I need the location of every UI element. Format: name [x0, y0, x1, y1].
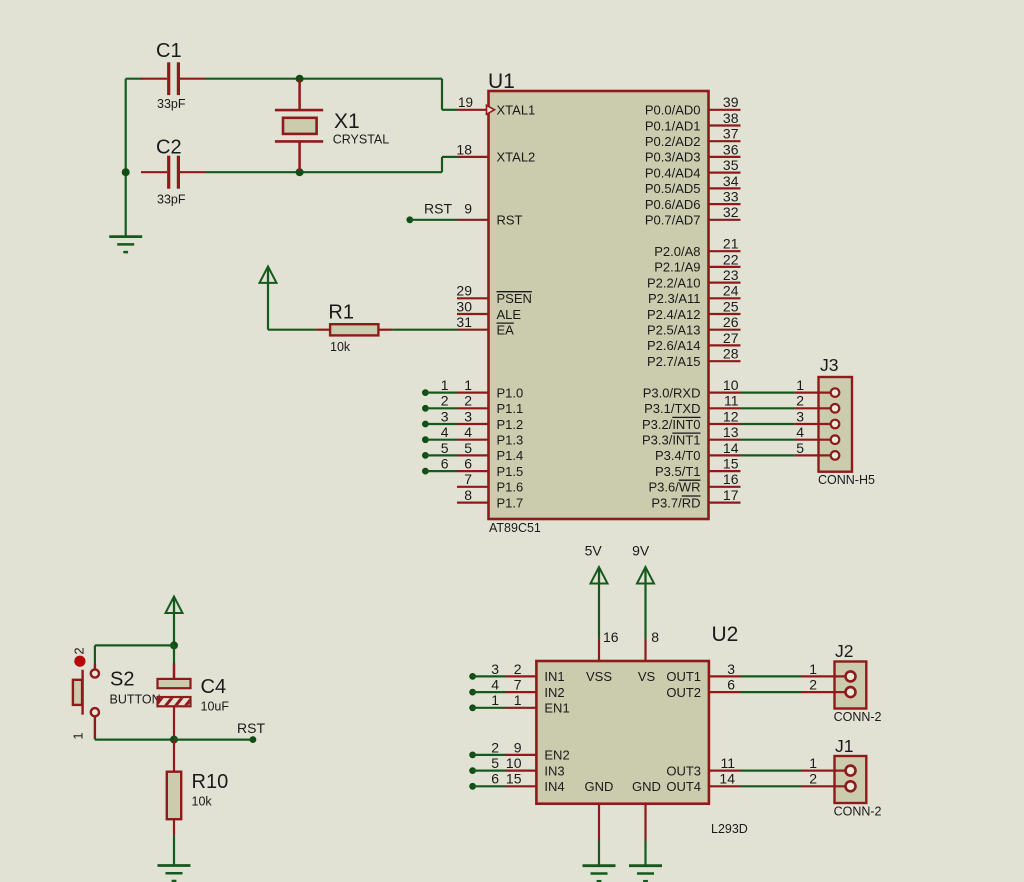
crystal X1: [298, 80, 301, 110]
svg-text:4: 4: [441, 424, 449, 440]
svg-text:P3.3/INT1: P3.3/INT1: [642, 433, 701, 448]
U1 pin 32: [709, 219, 741, 221]
wire vertical rail x=126: [125, 79, 127, 237]
U1 pin 16: [709, 486, 741, 488]
svg-text:6: 6: [464, 456, 472, 472]
node junction C2 rail: [122, 168, 130, 176]
node RST terminal U1: [406, 216, 413, 223]
wire terminal P1.3: [422, 436, 429, 443]
svg-text:X1: X1: [334, 110, 360, 133]
chip U2 L293D body: [536, 661, 709, 804]
svg-text:24: 24: [723, 283, 739, 299]
svg-text:5: 5: [464, 440, 472, 456]
svg-text:P0.0/AD0: P0.0/AD0: [645, 103, 701, 118]
svg-text:P3.2/INT0: P3.2/INT0: [642, 417, 701, 432]
switch S2 BUTTON: [94, 664, 96, 669]
svg-text:P2.6/A14: P2.6/A14: [647, 338, 701, 353]
svg-text:R10: R10: [192, 771, 229, 793]
svg-text:2: 2: [72, 647, 87, 654]
svg-text:P3.1/TXD: P3.1/TXD: [644, 401, 700, 416]
svg-text:CRYSTAL: CRYSTAL: [333, 133, 390, 147]
U2 GND pin left: [598, 804, 600, 841]
svg-text:P0.2/AD2: P0.2/AD2: [645, 134, 701, 149]
svg-text:19: 19: [458, 95, 473, 110]
svg-text:27: 27: [723, 330, 739, 346]
J3 pin 5: [741, 454, 795, 456]
svg-text:4: 4: [796, 424, 804, 440]
svg-text:L293D: L293D: [711, 822, 748, 836]
U1 pin 11: [709, 407, 741, 409]
svg-text:9: 9: [464, 201, 472, 217]
svg-text:XTAL2: XTAL2: [497, 150, 536, 165]
U1 pin 7 P1.6: [457, 486, 489, 488]
svg-text:2: 2: [514, 661, 522, 677]
J1 pin 1: [741, 769, 802, 771]
power arrow 9V: [644, 568, 646, 584]
svg-text:36: 36: [723, 141, 739, 157]
U2 pin 14 OUT4: [709, 785, 741, 787]
U1 pin 1 P1.0: [457, 392, 489, 394]
wire terminal P1.2: [422, 421, 429, 428]
svg-text:P1.3: P1.3: [497, 433, 524, 448]
svg-text:38: 38: [723, 110, 739, 126]
svg-text:OUT4: OUT4: [666, 779, 701, 794]
ground osc: [109, 235, 142, 238]
svg-text:10: 10: [723, 377, 739, 393]
svg-text:26: 26: [723, 314, 739, 330]
svg-text:C2: C2: [156, 137, 182, 159]
U1 pin 26: [709, 329, 741, 331]
wire C2 to XTAL2: [206, 171, 443, 173]
U1 pin 25: [709, 313, 741, 315]
svg-text:9V: 9V: [632, 543, 650, 559]
svg-text:2: 2: [809, 771, 817, 787]
U2 pin 16 VSS supply: [598, 639, 600, 661]
svg-text:P0.7/AD7: P0.7/AD7: [645, 213, 701, 228]
U2 pin 3 OUT1: [709, 675, 741, 677]
wire C1 to XTAL1: [206, 78, 443, 80]
chip U1 AT89C51 body: [489, 91, 709, 519]
svg-text:33pF: 33pF: [157, 193, 186, 207]
svg-text:P1.1: P1.1: [497, 401, 524, 416]
wire terminal P1.4: [422, 452, 429, 459]
svg-text:VSS: VSS: [586, 669, 612, 684]
wire terminal P1.1: [422, 405, 429, 412]
J3 pin 1: [741, 392, 795, 394]
capacitor C4: [173, 645, 175, 663]
svg-text:P2.7/A15: P2.7/A15: [647, 354, 701, 369]
svg-text:4: 4: [464, 424, 472, 440]
svg-text:EA: EA: [497, 323, 515, 338]
U1 pin 29 PSEN: [457, 297, 489, 299]
J3 pin 4: [741, 439, 795, 441]
U2 pin 6 OUT2: [709, 691, 741, 693]
svg-text:BUTTON: BUTTON: [110, 693, 161, 707]
svg-text:22: 22: [723, 251, 739, 267]
svg-text:2: 2: [491, 739, 499, 755]
svg-text:C1: C1: [156, 40, 182, 62]
node junction X1 top: [296, 75, 304, 83]
svg-text:35: 35: [723, 157, 739, 173]
svg-text:CONN-H5: CONN-H5: [818, 473, 875, 487]
capacitor C1: [141, 78, 167, 80]
U1 pin 38: [709, 124, 741, 126]
svg-text:P2.1/A9: P2.1/A9: [654, 260, 700, 275]
U1 pin 19 XTAL1: [457, 109, 489, 111]
node junction X1 bottom: [296, 168, 304, 176]
U1 pin 22: [709, 266, 741, 268]
svg-text:IN3: IN3: [544, 763, 564, 778]
U1 pin 34: [709, 187, 741, 189]
capacitor C2: [141, 171, 167, 173]
svg-text:P2.4/A12: P2.4/A12: [647, 307, 701, 322]
svg-text:P0.5/AD5: P0.5/AD5: [645, 181, 701, 196]
node junction RST net: [170, 736, 178, 744]
svg-text:32: 32: [723, 204, 739, 220]
svg-text:IN4: IN4: [544, 779, 564, 794]
svg-text:1: 1: [464, 377, 472, 393]
power arrow R1: [267, 267, 269, 283]
svg-text:U1: U1: [488, 70, 515, 93]
svg-text:CONN-2: CONN-2: [834, 805, 882, 819]
U2 pin 11 OUT3: [709, 769, 741, 771]
svg-text:J1: J1: [835, 736, 853, 756]
svg-text:15: 15: [723, 456, 739, 472]
power arrow reset: [173, 598, 175, 614]
U1 pin 28: [709, 360, 741, 362]
svg-text:RST: RST: [424, 201, 452, 217]
svg-text:P0.6/AD6: P0.6/AD6: [645, 197, 701, 212]
svg-text:PSEN: PSEN: [497, 291, 532, 306]
svg-text:RST: RST: [237, 720, 265, 736]
svg-text:2: 2: [441, 393, 449, 409]
svg-text:37: 37: [723, 126, 739, 142]
svg-text:P2.2/A10: P2.2/A10: [647, 275, 701, 290]
svg-text:P3.0/RXD: P3.0/RXD: [643, 385, 701, 400]
svg-text:3: 3: [727, 661, 735, 677]
svg-text:U2: U2: [712, 623, 739, 646]
svg-text:3: 3: [441, 408, 449, 424]
node RST terminal: [250, 736, 257, 743]
svg-text:P1.7: P1.7: [497, 495, 524, 510]
U1 pin 30 ALE: [457, 313, 489, 315]
svg-text:P0.3/AD3: P0.3/AD3: [645, 150, 701, 165]
svg-text:P1.4: P1.4: [497, 448, 524, 463]
svg-text:23: 23: [723, 267, 739, 283]
power arrow 5V: [598, 568, 600, 584]
svg-text:10: 10: [506, 755, 522, 771]
svg-text:11: 11: [720, 755, 735, 771]
U1 pin 12: [709, 423, 741, 425]
svg-text:P3.5/T1: P3.5/T1: [655, 464, 701, 479]
svg-text:2: 2: [809, 677, 817, 693]
U1 pin 37: [709, 140, 741, 142]
ground reset: [158, 864, 191, 867]
svg-text:2: 2: [464, 393, 472, 409]
U2 pin 2 IN1: [469, 673, 476, 680]
svg-text:5: 5: [796, 440, 804, 456]
svg-text:14: 14: [723, 440, 739, 456]
svg-text:5: 5: [491, 755, 499, 771]
svg-text:4: 4: [491, 677, 499, 693]
U1 pin 9 RST: [457, 219, 489, 221]
svg-text:1: 1: [71, 732, 86, 739]
U1 pin 39: [709, 109, 741, 111]
svg-text:RST: RST: [497, 213, 523, 228]
svg-text:25: 25: [723, 298, 739, 314]
U1 pin 27: [709, 344, 741, 346]
U2 pin 8 VS supply: [644, 639, 646, 661]
U1 pin 13: [709, 439, 741, 441]
U1 pin 2 P1.1: [457, 407, 489, 409]
svg-text:1: 1: [491, 692, 499, 708]
svg-text:16: 16: [603, 629, 619, 645]
U2 pin 10 IN3: [469, 767, 476, 774]
U2 pin 1 EN1: [469, 704, 476, 711]
svg-text:CONN-2: CONN-2: [834, 710, 882, 724]
U1 pin 36: [709, 156, 741, 158]
svg-text:P1.2: P1.2: [497, 417, 524, 432]
U1 pin 18 XTAL2: [457, 156, 489, 158]
svg-text:15: 15: [506, 771, 522, 787]
U1 pin 17: [709, 502, 741, 504]
U1 pin 31 EA: [457, 329, 489, 331]
svg-text:33pF: 33pF: [157, 97, 186, 111]
svg-text:31: 31: [456, 314, 472, 330]
svg-text:1: 1: [809, 661, 817, 677]
svg-text:IN1: IN1: [544, 669, 564, 684]
U2 pin 9 EN2: [469, 752, 476, 759]
svg-text:29: 29: [456, 283, 472, 299]
svg-text:11: 11: [724, 393, 739, 409]
wire terminal P1.0: [422, 389, 429, 396]
U1 pin 10: [709, 392, 741, 394]
svg-text:34: 34: [723, 173, 739, 189]
svg-text:OUT3: OUT3: [666, 763, 701, 778]
svg-text:P3.6/WR: P3.6/WR: [648, 480, 700, 495]
svg-text:9: 9: [514, 739, 522, 755]
svg-text:VS: VS: [638, 669, 656, 684]
svg-text:1: 1: [514, 692, 522, 708]
svg-text:5: 5: [441, 440, 449, 456]
connector J3 body: [819, 377, 853, 472]
wire R1 left: [268, 329, 316, 331]
svg-text:P3.4/T0: P3.4/T0: [655, 448, 701, 463]
svg-text:GND: GND: [585, 779, 614, 794]
svg-text:10k: 10k: [330, 340, 351, 354]
svg-text:14: 14: [719, 771, 735, 787]
svg-text:P0.1/AD1: P0.1/AD1: [645, 118, 701, 133]
svg-text:3: 3: [464, 408, 472, 424]
wire top to S2: [95, 644, 174, 646]
svg-text:18: 18: [456, 141, 472, 157]
U2 GND pin right: [644, 804, 646, 841]
svg-text:GND: GND: [632, 779, 661, 794]
svg-text:P0.4/AD4: P0.4/AD4: [645, 165, 701, 180]
ground U2 left: [583, 864, 616, 867]
svg-text:J3: J3: [820, 355, 838, 375]
resistor R10: [173, 740, 175, 772]
svg-text:7: 7: [464, 471, 472, 487]
svg-text:13: 13: [723, 424, 739, 440]
svg-text:P1.5: P1.5: [497, 464, 524, 479]
svg-text:1: 1: [441, 377, 449, 393]
U2 pin 7 IN2: [469, 689, 476, 696]
U1 pin 4 P1.3: [457, 439, 489, 441]
resistor R1: [316, 329, 330, 331]
svg-text:8: 8: [464, 487, 472, 503]
svg-text:P2.3/A11: P2.3/A11: [648, 291, 701, 306]
U1 pin 3 P1.2: [457, 423, 489, 425]
svg-text:16: 16: [723, 471, 739, 487]
svg-text:P2.0/A8: P2.0/A8: [654, 244, 700, 259]
svg-text:30: 30: [456, 298, 472, 314]
wire R10 to ground: [173, 836, 175, 866]
svg-text:P3.7/RD: P3.7/RD: [651, 495, 700, 510]
svg-text:3: 3: [491, 661, 499, 677]
U1 pin 33: [709, 203, 741, 205]
svg-text:7: 7: [514, 677, 522, 693]
node junction top reset: [170, 641, 178, 649]
svg-text:IN2: IN2: [544, 685, 564, 700]
svg-text:6: 6: [727, 677, 735, 693]
svg-text:S2: S2: [110, 669, 134, 691]
svg-text:EN1: EN1: [544, 701, 569, 716]
U1 pin 15: [709, 470, 741, 472]
wire C1 left to vertical rail: [126, 78, 142, 80]
svg-text:3: 3: [796, 408, 804, 424]
svg-text:8: 8: [651, 629, 659, 645]
U1 pin 35: [709, 172, 741, 174]
svg-text:1: 1: [796, 377, 804, 393]
svg-text:5V: 5V: [585, 543, 603, 559]
wire S2 bottom: [94, 738, 96, 740]
svg-text:6: 6: [491, 771, 499, 787]
U2 pin 15 IN4: [469, 783, 476, 790]
U1 pin 5 P1.4: [457, 454, 489, 456]
J2 pin 1: [741, 675, 802, 677]
svg-text:AT89C51: AT89C51: [489, 521, 541, 535]
U1 pin 6 P1.5: [457, 470, 489, 472]
J3 pin 3: [741, 423, 795, 425]
svg-text:XTAL1: XTAL1: [497, 103, 536, 118]
svg-text:6: 6: [441, 456, 449, 472]
svg-text:10k: 10k: [192, 795, 213, 809]
svg-text:C4: C4: [201, 676, 227, 698]
J1 pin 2: [741, 785, 802, 787]
U1 pin 14: [709, 454, 741, 456]
connector J1 body: [835, 756, 867, 803]
svg-text:33: 33: [723, 189, 739, 205]
svg-text:P2.5/A13: P2.5/A13: [647, 323, 701, 338]
svg-text:2: 2: [796, 393, 804, 409]
svg-text:R1: R1: [328, 302, 354, 324]
svg-text:39: 39: [723, 94, 739, 110]
U1 pin 23: [709, 282, 741, 284]
svg-text:28: 28: [723, 346, 739, 362]
svg-text:EN2: EN2: [544, 748, 569, 763]
wire RST net: [174, 738, 253, 740]
svg-text:J2: J2: [835, 641, 853, 661]
svg-text:ALE: ALE: [497, 307, 522, 322]
wire R1 to EA: [392, 329, 457, 331]
wire terminal P1.5: [422, 468, 429, 475]
svg-text:P1.0: P1.0: [497, 385, 524, 400]
svg-text:12: 12: [723, 408, 739, 424]
U1 pin 21: [709, 250, 741, 252]
svg-text:P1.6: P1.6: [497, 480, 524, 495]
connector J2 body: [835, 662, 867, 709]
svg-text:17: 17: [723, 487, 739, 503]
U1 pin 8 P1.7: [457, 502, 489, 504]
svg-text:OUT1: OUT1: [666, 669, 701, 684]
svg-text:10uF: 10uF: [201, 700, 230, 714]
svg-text:OUT2: OUT2: [666, 685, 701, 700]
J2 pin 2: [741, 691, 802, 693]
ground U2 right: [629, 864, 662, 867]
J3 pin 2: [741, 407, 795, 409]
svg-text:21: 21: [723, 236, 739, 252]
svg-text:1: 1: [809, 755, 817, 771]
U1 pin 24: [709, 297, 741, 299]
